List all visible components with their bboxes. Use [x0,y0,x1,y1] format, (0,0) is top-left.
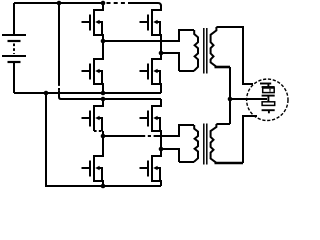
wire A midpoint bottom to T2 primary top [103,135,142,137]
node A midpoint bottom [101,134,106,139]
wire A midpoint to T1 primary top [103,30,194,41]
transistor Q1 [82,3,104,41]
wire B midpoint to T1 primary bottom [161,53,179,71]
transformer T1 core [203,28,205,74]
transistor Q2 [82,41,104,93]
wire filament lead 2 [243,116,257,163]
battery B1 [2,3,26,93]
node bottom rail junction [101,184,106,189]
wire secondary link vertical [229,67,231,124]
transformer T2 secondary winding [211,124,217,163]
wire bottom rail [46,93,161,186]
wire dashed rail segment [107,2,129,4]
node B midpoint bottom [159,147,164,152]
transistor Q6 [82,136,104,186]
transformer T2 primary winding [194,125,198,162]
node top-half source junction [101,91,106,96]
wire T1 secondary top to magnetron anode [216,27,253,84]
magnetron V1 filament [260,84,275,114]
transistor Q4 [140,53,162,93]
node A midpoint top [101,39,106,44]
wire T2 secondary bottom lead [215,162,244,165]
wire B midpoint bottom to T2 primary bottom [161,149,179,162]
transistor Q3 [140,5,162,53]
wire battery negative rail [14,92,161,94]
wire T1 secondary bottom lead [215,66,231,69]
transistor Q7 [140,99,162,149]
node filament junction [228,97,233,102]
transformer T2 core [203,124,205,165]
wire top rail [14,2,103,4]
wire T2 secondary top lead [216,123,230,125]
wire filament lead 1 [230,98,267,100]
node bottom-half rail junction [101,97,106,102]
node rail junction left [57,1,62,6]
wire rail to Q3 drain [128,3,161,10]
transformer T1 secondary winding [211,27,217,66]
node battery negative junction [44,91,49,96]
wire T1 primary bottom lead [179,70,194,72]
node B midpoint top [159,51,164,56]
node rail junction right [101,1,106,6]
magnetron V1 envelope [247,79,288,120]
transformer T1 primary winding [194,30,198,71]
transistor Q5 [82,99,104,136]
wire T2 primary bottom lead [179,161,194,163]
wire positive feed to bottom half [58,3,60,84]
transistor Q8 [140,149,162,186]
